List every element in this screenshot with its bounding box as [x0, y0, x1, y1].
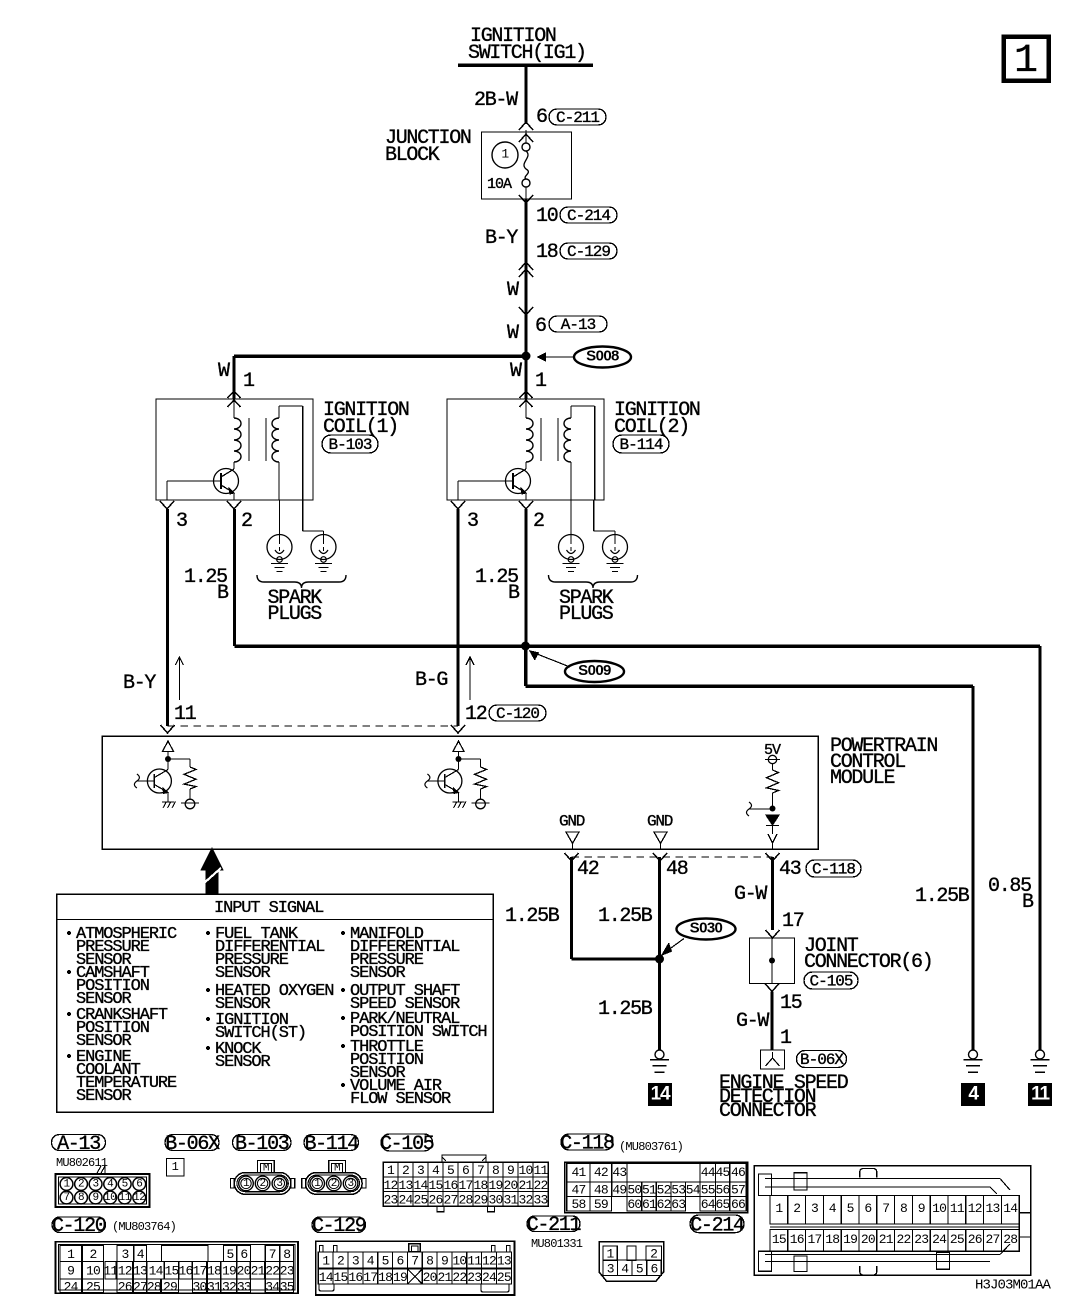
svg-text:5: 5	[447, 1163, 454, 1178]
svg-text:9: 9	[67, 1264, 74, 1279]
svg-text:1.25B: 1.25B	[915, 885, 970, 908]
svg-text:42: 42	[594, 1165, 608, 1180]
spark plug wire 1	[279, 500, 281, 535]
svg-text:61: 61	[642, 1197, 657, 1212]
svg-text:5V: 5V	[764, 742, 781, 759]
svg-text:60: 60	[627, 1197, 641, 1212]
PCM driver base squiggle	[425, 774, 430, 788]
svg-text:4: 4	[367, 1253, 375, 1268]
svg-text:10A: 10A	[487, 176, 512, 193]
svg-text:2: 2	[337, 1253, 344, 1268]
PCM output chevron	[768, 834, 777, 843]
svg-text:17: 17	[193, 1264, 207, 1279]
svg-text:GND: GND	[647, 812, 673, 830]
coil 1 power transistor	[214, 469, 239, 494]
coil 1 core	[248, 418, 250, 461]
powertrain control module box	[102, 736, 818, 849]
svg-text:6: 6	[136, 1179, 142, 1191]
svg-text:53: 53	[671, 1183, 685, 1198]
svg-text:6: 6	[240, 1247, 247, 1262]
ignition switch bus bar	[458, 63, 593, 67]
svg-text:2: 2	[331, 1178, 337, 1190]
svg-text:17: 17	[458, 1178, 472, 1193]
right ground wire 0.85B	[1039, 646, 1042, 1050]
PCM driver node	[165, 756, 171, 762]
svg-text:INPUT SIGNAL: INPUT SIGNAL	[214, 899, 324, 918]
svg-text:B: B	[1022, 891, 1034, 914]
svg-text:17: 17	[782, 910, 804, 933]
arrow into PCM pin 11	[161, 725, 175, 733]
svg-text:23: 23	[467, 1270, 481, 1285]
svg-text:C-105: C-105	[380, 1133, 434, 1156]
svg-text:SENSOR: SENSOR	[215, 1053, 271, 1072]
svg-text:15: 15	[772, 1232, 786, 1247]
coil 2 secondary winding	[564, 418, 571, 462]
ground bus to S009	[235, 644, 1041, 648]
svg-text:7: 7	[63, 1192, 69, 1204]
svg-text:7: 7	[477, 1163, 484, 1178]
splice S030 callout	[677, 919, 736, 940]
svg-text:2: 2	[402, 1163, 409, 1178]
svg-text:C-129: C-129	[567, 243, 610, 261]
svg-text:35: 35	[280, 1279, 294, 1294]
wire 2B-W from ignition switch	[525, 65, 528, 124]
svg-text:1: 1	[314, 1178, 321, 1190]
svg-text:3: 3	[276, 1178, 282, 1190]
bus wire to ignition coil 1	[234, 354, 526, 358]
svg-text:B-114: B-114	[619, 436, 662, 454]
svg-text:6: 6	[864, 1201, 871, 1216]
svg-text:W: W	[218, 360, 230, 383]
svg-text:7: 7	[411, 1253, 418, 1268]
connector label C-129	[312, 1217, 366, 1233]
svg-text:5: 5	[122, 1179, 128, 1191]
svg-text:C-214: C-214	[567, 207, 610, 225]
svg-text:48: 48	[666, 858, 688, 881]
svg-text:33: 33	[533, 1193, 547, 1208]
svg-text:3: 3	[467, 510, 478, 533]
svg-text:1: 1	[243, 370, 255, 393]
svg-text:12: 12	[465, 703, 487, 726]
svg-text:C-118: C-118	[812, 861, 855, 879]
svg-text:29: 29	[163, 1279, 177, 1294]
svg-text:19: 19	[843, 1232, 857, 1247]
svg-text:6: 6	[650, 1262, 657, 1277]
svg-text:11: 11	[950, 1201, 965, 1216]
svg-text:C-118: C-118	[560, 1133, 614, 1156]
svg-text:4: 4	[107, 1179, 114, 1191]
svg-text:25: 25	[86, 1279, 100, 1294]
splice S008 callout	[574, 347, 631, 368]
svg-text:(MU803764): (MU803764)	[112, 1220, 176, 1234]
input signal list column 1	[67, 931, 71, 935]
arrow into PCM pin 12	[451, 725, 465, 733]
svg-text:11: 11	[103, 1264, 118, 1279]
arrow connector crossing down	[519, 307, 533, 315]
connector C-214 pinout	[754, 1166, 1030, 1276]
ignition coil (2) box	[447, 399, 604, 500]
svg-text:1: 1	[172, 1160, 179, 1174]
svg-text:H3J03M01AA: H3J03M01AA	[975, 1278, 1052, 1294]
svg-text:18: 18	[378, 1270, 392, 1285]
svg-text:W: W	[510, 360, 522, 383]
coil 1 pin 1 entry arrow	[228, 391, 241, 398]
PCM driver transistor	[147, 769, 171, 793]
connector label C-120	[52, 1217, 106, 1233]
PCM driver base squiggle	[134, 774, 139, 788]
svg-text:12: 12	[383, 1178, 397, 1193]
svg-text:20: 20	[861, 1232, 875, 1247]
coil 2 pin 3 wire B-G	[457, 509, 460, 726]
svg-text:12: 12	[133, 1192, 145, 1204]
svg-text:C-120: C-120	[496, 705, 539, 723]
wire 1.25B pin 48	[658, 857, 661, 1050]
svg-text:S030: S030	[690, 919, 723, 936]
svg-text:32: 32	[222, 1279, 236, 1294]
svg-text:SENSOR: SENSOR	[76, 1087, 132, 1106]
svg-text:1: 1	[243, 1178, 250, 1190]
svg-text:31: 31	[503, 1193, 518, 1208]
svg-text:46: 46	[731, 1165, 745, 1180]
spark plug	[559, 535, 584, 560]
svg-text:50: 50	[627, 1183, 641, 1198]
coil 2 base wire to pin 3	[458, 480, 513, 482]
svg-text:48: 48	[594, 1183, 608, 1198]
svg-text:24: 24	[932, 1232, 947, 1247]
svg-text:B-06X: B-06X	[800, 1051, 844, 1069]
svg-text:18: 18	[473, 1178, 487, 1193]
svg-text:16: 16	[178, 1264, 192, 1279]
svg-text:8: 8	[426, 1253, 433, 1268]
coil 1 base wire to pin 3	[167, 480, 221, 482]
svg-text:8: 8	[492, 1163, 499, 1178]
ground right 0.85B	[1036, 1050, 1045, 1059]
svg-text:21: 21	[879, 1232, 894, 1247]
svg-text:18: 18	[207, 1264, 221, 1279]
svg-text:30: 30	[488, 1193, 502, 1208]
svg-text:26: 26	[428, 1193, 442, 1208]
svg-text:26: 26	[118, 1279, 132, 1294]
svg-text:CONNECTOR(6): CONNECTOR(6)	[804, 951, 932, 974]
svg-text:43: 43	[612, 1165, 626, 1180]
svg-text:C-214: C-214	[690, 1214, 744, 1237]
svg-text:47: 47	[571, 1183, 585, 1198]
connector B-06X pinout	[167, 1159, 185, 1177]
input signal list column 2	[206, 931, 210, 935]
svg-text:C-129: C-129	[312, 1215, 366, 1238]
connector label A-13	[52, 1135, 106, 1151]
coil 2 pin 1 entry arrow	[520, 391, 533, 398]
page number box 1	[1004, 37, 1049, 81]
wire 1.25B pin 42	[570, 857, 573, 959]
coil 2 primary winding	[525, 399, 527, 418]
svg-text:MU801331: MU801331	[531, 1237, 583, 1251]
svg-text:13: 13	[133, 1264, 147, 1279]
svg-text:2B-W: 2B-W	[474, 89, 518, 112]
wire G-W pin 15	[771, 992, 774, 1051]
svg-text:34: 34	[265, 1279, 280, 1294]
svg-text:11: 11	[1031, 1084, 1050, 1105]
coil 2 pin 2 ground wire	[525, 509, 528, 646]
svg-text:14: 14	[319, 1270, 334, 1285]
svg-text:11: 11	[533, 1163, 548, 1178]
svg-text:1: 1	[501, 147, 509, 162]
PCM driver input triangle	[453, 741, 464, 752]
svg-text:41: 41	[571, 1165, 586, 1180]
svg-text:25: 25	[497, 1270, 511, 1285]
PCM driver transistor	[438, 769, 462, 793]
ground marker 11	[1028, 1083, 1052, 1106]
svg-text:B-06X: B-06X	[165, 1133, 220, 1156]
svg-text:5: 5	[847, 1201, 854, 1216]
svg-text:28: 28	[458, 1193, 472, 1208]
connector label C-118	[561, 1134, 613, 1150]
PCM pull-up resistor	[767, 770, 779, 793]
svg-text:B-103: B-103	[235, 1133, 289, 1156]
svg-text:25: 25	[413, 1193, 427, 1208]
input signal list column 3	[341, 931, 345, 935]
svg-text:2: 2	[241, 510, 252, 533]
svg-text:42: 42	[577, 858, 599, 881]
connector C-105 pinout	[442, 1155, 486, 1162]
svg-text:12: 12	[968, 1201, 982, 1216]
svg-text:4: 4	[137, 1247, 145, 1262]
svg-text:2: 2	[260, 1178, 266, 1190]
svg-text:14: 14	[149, 1264, 164, 1279]
svg-text:1.25B: 1.25B	[598, 998, 653, 1021]
ground right 1.25B	[969, 1050, 978, 1059]
arrow out of junction block	[519, 195, 533, 203]
svg-text:MODULE: MODULE	[830, 767, 895, 790]
connector B-114 pinout	[306, 1173, 363, 1195]
svg-text:45: 45	[716, 1165, 730, 1180]
connector label C-214	[690, 1215, 744, 1233]
svg-text:19: 19	[222, 1264, 236, 1279]
svg-text:11: 11	[174, 703, 197, 726]
svg-text:21: 21	[518, 1178, 533, 1193]
input signal box	[57, 894, 494, 1112]
PCM driver pull resistor	[459, 758, 481, 760]
svg-text:1: 1	[775, 1201, 783, 1216]
svg-text:21: 21	[251, 1264, 266, 1279]
svg-text:SWITCH(IG1): SWITCH(IG1)	[468, 42, 586, 65]
connector B-103 pinout	[234, 1173, 291, 1195]
svg-text:S008: S008	[586, 347, 619, 364]
svg-text:3: 3	[122, 1247, 129, 1262]
svg-text:16: 16	[790, 1232, 804, 1247]
svg-text:17: 17	[807, 1232, 821, 1247]
svg-text:51: 51	[642, 1183, 657, 1198]
svg-text:B-114: B-114	[304, 1133, 358, 1156]
svg-text:14: 14	[413, 1178, 428, 1193]
svg-text:3: 3	[607, 1262, 614, 1277]
svg-text:13: 13	[497, 1253, 511, 1268]
svg-text:2: 2	[793, 1201, 800, 1216]
svg-text:W: W	[507, 322, 519, 345]
arrow out pin 48	[653, 853, 667, 861]
svg-text:S009: S009	[578, 662, 611, 679]
svg-text:7: 7	[269, 1247, 276, 1262]
connector label B-114	[304, 1135, 359, 1151]
wire B-Y junction block to coils	[525, 199, 528, 357]
svg-text:W: W	[507, 279, 519, 302]
svg-text:44: 44	[701, 1165, 716, 1180]
signal direction arrow 11	[178, 657, 180, 700]
coil 1 primary winding	[233, 399, 235, 418]
svg-text:9: 9	[93, 1192, 99, 1204]
svg-text:32: 32	[518, 1193, 532, 1208]
svg-text:B-Y: B-Y	[123, 672, 156, 695]
svg-text:20: 20	[423, 1270, 437, 1285]
svg-text:4: 4	[829, 1201, 837, 1216]
connector A-13 pinout	[97, 1166, 105, 1173]
junction block box	[482, 132, 572, 199]
svg-text:5: 5	[382, 1253, 389, 1268]
svg-text:8: 8	[283, 1247, 290, 1262]
svg-text:2: 2	[650, 1247, 657, 1262]
svg-text:55: 55	[701, 1183, 715, 1198]
svg-text:1.25B: 1.25B	[505, 905, 560, 928]
svg-text:22: 22	[896, 1232, 910, 1247]
coil 1 secondary winding	[272, 418, 279, 462]
svg-text:8: 8	[78, 1192, 84, 1204]
svg-text:6: 6	[462, 1163, 469, 1178]
fuse 1 10A	[492, 142, 518, 168]
svg-text:23: 23	[280, 1264, 294, 1279]
connector C-211 pinout	[599, 1242, 663, 1282]
PCM driver pull resistor	[168, 758, 190, 760]
spark plug wire 1	[570, 500, 572, 535]
engine speed detection connector box	[761, 1050, 785, 1069]
svg-text:PLUGS: PLUGS	[559, 603, 614, 626]
svg-text:3: 3	[348, 1178, 354, 1190]
svg-text:A-13: A-13	[57, 1133, 100, 1156]
svg-text:9: 9	[441, 1253, 448, 1268]
svg-text:1: 1	[1014, 39, 1038, 84]
svg-text:10: 10	[932, 1201, 946, 1216]
svg-text:27: 27	[985, 1232, 999, 1247]
svg-text:25: 25	[950, 1232, 964, 1247]
svg-text:7: 7	[882, 1201, 889, 1216]
svg-text:14: 14	[1003, 1201, 1018, 1216]
svg-text:M: M	[334, 1163, 340, 1175]
splice S009 node	[521, 642, 530, 651]
connector label B-06X	[165, 1135, 219, 1151]
svg-text:C-120: C-120	[52, 1215, 106, 1238]
svg-text:2: 2	[89, 1247, 96, 1262]
svg-text:27: 27	[133, 1279, 147, 1294]
svg-text:FLOW SENSOR: FLOW SENSOR	[350, 1090, 451, 1109]
svg-text:4: 4	[621, 1262, 629, 1277]
svg-text:58: 58	[571, 1197, 585, 1212]
svg-text:27: 27	[443, 1193, 457, 1208]
connector C-120 pinout	[56, 1242, 299, 1293]
svg-text:C-211: C-211	[527, 1214, 582, 1237]
svg-text:6: 6	[396, 1253, 403, 1268]
spark plug wire 2	[302, 500, 304, 531]
PCM driver transistor chassis ground	[453, 801, 465, 803]
PCM driver transistor chassis ground	[162, 801, 174, 803]
spark plug wire 2	[593, 500, 595, 531]
splice S030 node	[655, 955, 664, 964]
coil 1 pin 3 exit	[160, 501, 174, 509]
svg-text:52: 52	[657, 1183, 671, 1198]
svg-text:1: 1	[387, 1163, 395, 1178]
svg-text:6: 6	[536, 106, 547, 129]
svg-text:33: 33	[237, 1279, 251, 1294]
connector label B-103	[233, 1135, 292, 1151]
svg-text:B: B	[217, 582, 229, 605]
svg-text:C-211: C-211	[556, 109, 599, 127]
right ground wire 1.25B	[972, 686, 975, 1050]
wire from S009 down	[524, 646, 528, 686]
svg-text:1: 1	[67, 1247, 75, 1262]
svg-text:3: 3	[352, 1253, 359, 1268]
svg-text:19: 19	[393, 1270, 407, 1285]
svg-text:G-W: G-W	[734, 883, 767, 906]
connector C-120 dashed line	[168, 725, 459, 727]
double arrow connector crossing	[519, 262, 533, 270]
connector C-118 dashed line	[572, 856, 773, 858]
svg-text:63: 63	[671, 1197, 685, 1212]
svg-text:SENSOR: SENSOR	[215, 964, 271, 983]
svg-text:B-G: B-G	[415, 669, 447, 692]
svg-text:2: 2	[78, 1179, 84, 1191]
svg-text:A-13: A-13	[561, 316, 596, 334]
svg-text:8: 8	[900, 1201, 907, 1216]
svg-text:M: M	[263, 1163, 269, 1175]
svg-text:64: 64	[701, 1197, 716, 1212]
svg-text:26: 26	[968, 1232, 982, 1247]
coil 1 pin 2 ground wire	[233, 509, 236, 646]
connector C-129 pinout	[316, 1241, 515, 1295]
svg-text:28: 28	[147, 1279, 161, 1294]
svg-text:4: 4	[968, 1084, 979, 1105]
svg-text:PLUGS: PLUGS	[268, 603, 323, 626]
svg-text:1.25B: 1.25B	[598, 905, 653, 928]
svg-text:3: 3	[417, 1163, 424, 1178]
svg-text:15: 15	[165, 1264, 179, 1279]
spark plugs brace	[549, 575, 638, 588]
svg-text:2: 2	[533, 510, 544, 533]
spark plugs brace	[257, 575, 346, 588]
svg-text:B: B	[508, 582, 520, 605]
svg-text:17: 17	[363, 1270, 377, 1285]
ignition coil (1) box	[156, 399, 313, 500]
svg-text:59: 59	[594, 1197, 608, 1212]
svg-text:B-Y: B-Y	[485, 227, 518, 250]
svg-text:13: 13	[398, 1178, 412, 1193]
svg-text:1: 1	[535, 370, 547, 393]
svg-text:24: 24	[482, 1270, 497, 1285]
svg-text:10: 10	[452, 1253, 466, 1268]
svg-text:CONNECTOR: CONNECTOR	[719, 1100, 817, 1123]
joint connector (6) box	[750, 938, 795, 984]
input signal arrow	[201, 848, 223, 893]
svg-text:10: 10	[536, 205, 558, 228]
svg-text:30: 30	[193, 1279, 207, 1294]
svg-text:1: 1	[63, 1179, 70, 1191]
PCM driver input triangle	[163, 741, 174, 752]
wire G-W pin 43	[771, 857, 774, 930]
svg-text:G-W: G-W	[736, 1010, 769, 1033]
svg-text:24: 24	[398, 1193, 413, 1208]
PCM driver node	[456, 756, 462, 762]
svg-text:13: 13	[985, 1201, 999, 1216]
svg-text:9: 9	[918, 1201, 925, 1216]
coil 2 core	[540, 418, 542, 461]
svg-text:1: 1	[780, 1027, 792, 1050]
